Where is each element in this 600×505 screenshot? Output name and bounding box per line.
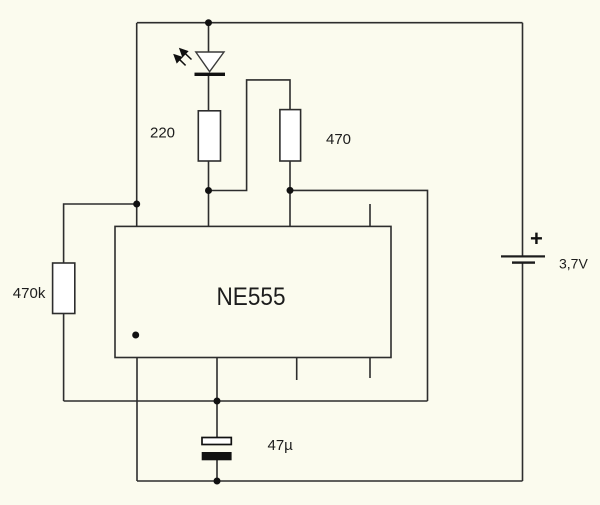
- battery B1 long plate: [501, 255, 545, 257]
- wire node B down to IC top pin: [289, 190, 291, 226]
- junction node C left: [133, 201, 140, 208]
- svg-text:+: +: [530, 226, 543, 251]
- LED D1 light arrow lower: [174, 55, 185, 65]
- svg-text:3,7V: 3,7V: [559, 256, 588, 272]
- svg-text:470k: 470k: [13, 285, 46, 302]
- LED D1 cathode bar: [195, 73, 226, 76]
- junction node B under 470: [287, 187, 294, 194]
- battery B1 short plate: [512, 261, 535, 263]
- wire battery minus down to bottom rail: [522, 264, 524, 482]
- wire IC top stub pin: [369, 204, 371, 226]
- svg-text:220: 220: [150, 125, 175, 142]
- U1 pin 1 marker dot: [132, 332, 139, 339]
- wire left supply drop to IC pin: [136, 23, 138, 227]
- wire capacitor bottom plate to bottom rail: [216, 460, 218, 481]
- wire node A down to IC top pin: [208, 191, 210, 227]
- wire IC bottom stub pin right: [369, 358, 371, 379]
- wire 220 bottom to node A: [208, 161, 210, 191]
- resistor R1 220: [198, 111, 220, 161]
- wire node C left to 470k top: [64, 204, 137, 263]
- wire LED cathode to resistor 220: [208, 75, 210, 111]
- resistor R2 470: [280, 110, 301, 161]
- svg-text:NE555: NE555: [217, 283, 286, 311]
- LED D1 triangle: [196, 52, 224, 72]
- wire IC bottom center pin to cap node: [216, 358, 218, 402]
- junction cap bottom node: [214, 478, 221, 485]
- wire top rail junction to LED anode: [208, 23, 210, 52]
- wire IC bottom stub pin left: [296, 358, 298, 381]
- LED D1 light arrow upper: [180, 49, 191, 60]
- wire jog from node A up over to 470 top: [209, 80, 291, 191]
- wire 470k bottom down to threshold rail: [63, 314, 65, 402]
- junction top rail node: [205, 19, 212, 26]
- capacitor C1 top plate: [202, 438, 231, 445]
- resistor R3 470k: [53, 263, 75, 314]
- wire horizontal threshold rail: [64, 400, 428, 402]
- wire 470 bottom to node B: [289, 161, 291, 190]
- capacitor C1 bottom plate: [202, 452, 232, 460]
- op-amp U1 NE555 body: [115, 226, 391, 357]
- wire IC ground pin down to bottom rail: [136, 358, 138, 482]
- wire bottom ground rail: [137, 480, 523, 482]
- wire cap node to capacitor top plate: [216, 401, 218, 438]
- junction node A under 220: [205, 187, 212, 194]
- wire top supply rail: [137, 22, 523, 24]
- wire right supply drop to battery plus: [522, 23, 524, 256]
- svg-text:470: 470: [326, 131, 351, 148]
- svg-text:47µ: 47µ: [268, 437, 294, 454]
- junction cap top node: [214, 398, 221, 405]
- wire node B right then down to threshold rail: [290, 190, 428, 401]
